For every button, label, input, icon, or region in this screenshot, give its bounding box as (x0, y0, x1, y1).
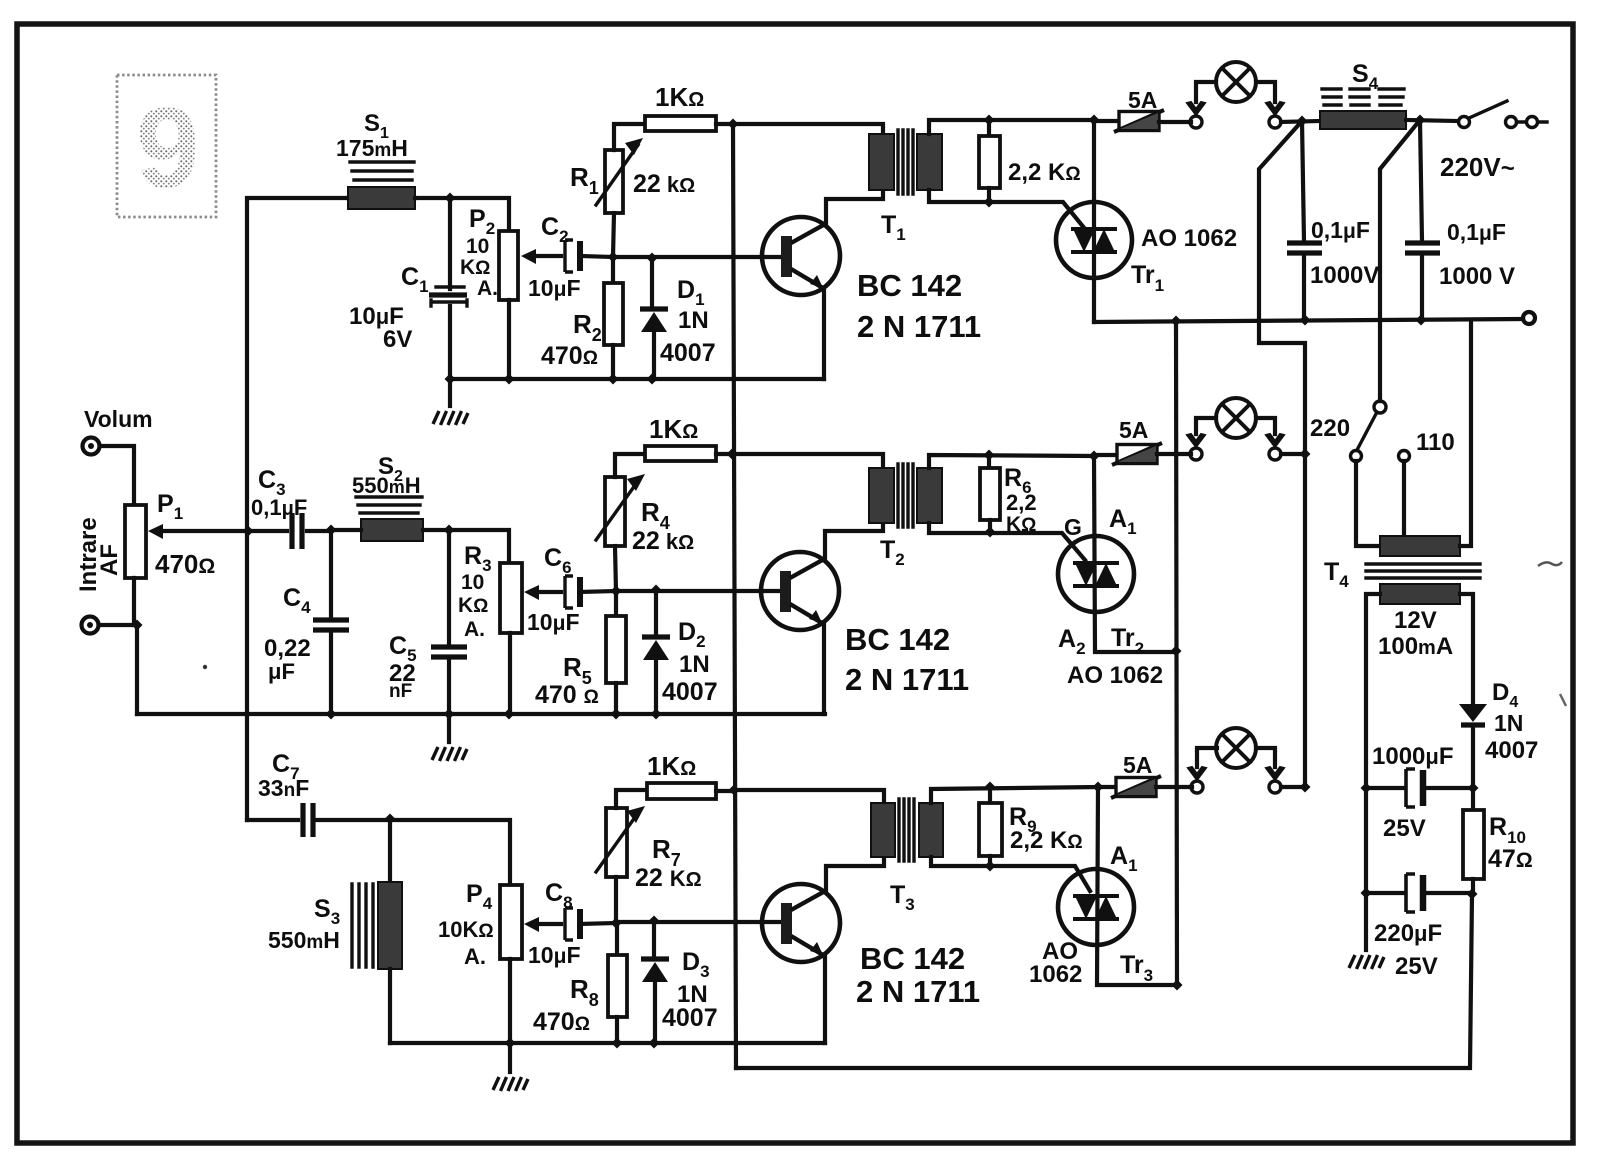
node cap2 rail (1416, 315, 1427, 326)
wire T1 sec top (929, 120, 1094, 134)
svg-text:0,1μF: 0,1μF (1447, 219, 1506, 245)
svg-text:470Ω: 470Ω (533, 1008, 590, 1036)
node S4 left (1297, 116, 1308, 127)
plug socket L2 left (1187, 434, 1205, 460)
inductor S2 (356, 497, 423, 541)
svg-text:9: 9 (136, 85, 199, 212)
wire channel3 ground rail (390, 1041, 825, 1045)
capacitor C2 (565, 240, 580, 272)
wire (99, 625, 137, 714)
stray mark 2 (1560, 694, 1566, 706)
thyristor Tr1 AO1062 (1056, 202, 1132, 278)
fuse F3 5A (1098, 785, 1116, 789)
svg-text:A1: A1 (1110, 842, 1138, 875)
ground channel3 (508, 1043, 512, 1072)
svg-text:220μF: 220μF (1374, 920, 1442, 947)
wire lamp3 left (1197, 748, 1217, 767)
switch S mains (1459, 117, 1470, 128)
wire T4 sec left (1366, 594, 1380, 950)
svg-text:1N: 1N (678, 307, 709, 334)
wire base (613, 255, 782, 259)
wire T2 sec bottom / gate (929, 523, 1085, 560)
svg-text:A1: A1 (1109, 505, 1137, 538)
svg-text:P4: P4 (466, 880, 493, 913)
capacitor 0.1uF no.1 (1302, 121, 1304, 241)
svg-text:R10: R10 (1489, 813, 1526, 847)
svg-text:470Ω: 470Ω (541, 342, 598, 370)
svg-text:10μF: 10μF (527, 609, 580, 635)
svg-text:nF: nF (389, 681, 412, 702)
svg-text:22 kΩ: 22 kΩ (632, 527, 694, 555)
resistor R10 (1471, 788, 1475, 810)
wire lamp2 left (1196, 418, 1216, 434)
svg-text:2,2: 2,2 (1006, 490, 1037, 515)
transformer T4 (1366, 536, 1480, 604)
svg-text:P2: P2 (469, 205, 495, 238)
svg-text:R1: R1 (570, 162, 599, 198)
wire S4 right (1406, 120, 1458, 121)
lamp L3 (1216, 728, 1256, 768)
capacitor C3 (292, 513, 302, 549)
wire emitter rail ch1 (450, 377, 824, 381)
node R9 bottom (985, 861, 996, 872)
node bus wiper (243, 526, 254, 537)
svg-text:P1: P1 (157, 490, 183, 523)
variable resistor R7 (606, 808, 627, 877)
svg-text:Tr1: Tr1 (1131, 261, 1164, 295)
wire T3 sec bottom / gate (931, 857, 1090, 891)
stray mark 1 (1538, 562, 1562, 566)
selector switch 220/110 (1374, 401, 1386, 413)
thyristor Tr2 AO1062 (1058, 536, 1134, 612)
capacitor C8 (565, 908, 580, 940)
node cap1 rail (1300, 315, 1311, 326)
svg-text:A.: A. (464, 944, 486, 969)
svg-text:2 N 1711: 2 N 1711 (845, 662, 969, 697)
wire lamp1 right (1256, 82, 1275, 102)
node C7-S3 (385, 814, 396, 825)
resistor 1K ch1 (645, 116, 716, 131)
wire thyristor vertical (1092, 120, 1096, 322)
plug socket L2 right (1266, 434, 1284, 460)
wire 1K to bus (716, 122, 733, 126)
node 2.2k top (984, 115, 995, 126)
node R8 rail (612, 1038, 623, 1049)
wire T2 sec top (929, 455, 1094, 468)
node cap 1000 left (1361, 783, 1372, 794)
svg-text:550mH: 550mH (268, 927, 340, 953)
svg-text:10: 10 (466, 235, 489, 258)
node thyristor top (1089, 115, 1100, 126)
svg-text:22 kΩ: 22 kΩ (633, 170, 695, 198)
wire collector Q3 (826, 857, 884, 890)
wire to P2 (415, 198, 509, 231)
wire T4 sec right (1460, 594, 1473, 704)
svg-text:100mA: 100mA (1378, 633, 1453, 660)
node feed ch3 (1300, 782, 1311, 793)
wire P2 bottom (507, 300, 511, 379)
node R6 top (984, 450, 995, 461)
wire base ch3 (616, 920, 782, 924)
node D3 top (649, 916, 660, 927)
svg-text:47Ω: 47Ω (1488, 845, 1533, 873)
svg-text:T1: T1 (881, 211, 906, 244)
node D3 rail (649, 1038, 660, 1049)
node bus ch2 (727, 449, 738, 460)
wire supply rail to T1 (733, 124, 883, 134)
capacitor C5 (447, 530, 451, 647)
svg-text:1N: 1N (1494, 710, 1523, 736)
wire emitter Q3 (823, 956, 827, 1043)
stray dot (203, 665, 207, 669)
wire wiper to bus (163, 529, 248, 533)
svg-text:4007: 4007 (1485, 737, 1538, 764)
svg-text:1062: 1062 (1029, 961, 1082, 988)
svg-text:T2: T2 (880, 536, 905, 569)
wire wiper to C6 (539, 590, 561, 594)
node C1 rail (445, 374, 456, 385)
svg-text:12V: 12V (1394, 607, 1437, 634)
wire collector Q1 (826, 190, 883, 223)
svg-text:1KΩ: 1KΩ (655, 82, 704, 112)
stamp logo "9" (117, 75, 216, 217)
svg-text:AF: AF (96, 544, 123, 576)
diode D2 (654, 590, 658, 636)
diode D4 (1459, 704, 1487, 722)
ground channel1 (448, 379, 452, 406)
resistor R8 (615, 923, 619, 955)
svg-text:G: G (1064, 514, 1082, 540)
svg-text:R8: R8 (570, 974, 599, 1010)
svg-text:10μF: 10μF (528, 942, 581, 968)
svg-text:1KΩ: 1KΩ (647, 751, 696, 781)
diode D3 (652, 921, 656, 958)
ground psu (1349, 955, 1384, 969)
node S1 out (445, 193, 456, 204)
transformer T1 (869, 130, 942, 194)
wire lamp1 left (1196, 82, 1216, 102)
wire supply rail to T3 (734, 790, 884, 803)
svg-text:550mH: 550mH (352, 473, 421, 498)
svg-text:R2: R2 (573, 309, 602, 345)
svg-text:33nF: 33nF (258, 775, 309, 801)
svg-text:470Ω: 470Ω (155, 549, 215, 579)
inductor S3 (352, 819, 402, 1043)
transformer T3 (871, 799, 943, 861)
ground channel2 (432, 747, 467, 761)
wire thyristor vertical ch3 (1097, 787, 1177, 985)
node D2 top (651, 585, 662, 596)
node R9 top (985, 782, 996, 793)
svg-text:1KΩ: 1KΩ (649, 414, 698, 444)
wire psu output down (736, 894, 1472, 1068)
node bus ch1 (728, 119, 739, 130)
resistor 1K ch3 (647, 783, 716, 799)
fuse F2 5A (1094, 453, 1117, 457)
resistor R9 (988, 787, 992, 803)
svg-text:175mH: 175mH (336, 135, 408, 161)
wire thyristor vertical ch2 (1094, 456, 1176, 652)
wire ground rail channel2 (137, 712, 825, 716)
svg-text:5A: 5A (1128, 87, 1157, 113)
node C3-S2 (326, 525, 337, 536)
svg-text:C4: C4 (283, 584, 311, 617)
capacitor C1 (448, 198, 452, 289)
resistor 2.2k ch1 (987, 120, 991, 136)
svg-text:A.: A. (477, 277, 498, 300)
wire emitter Q2 (822, 624, 826, 714)
svg-text:2 N 1711: 2 N 1711 (857, 309, 981, 344)
variable resistor R4 (605, 477, 625, 546)
plug socket L1 left (1187, 102, 1205, 128)
resistor R5 (614, 591, 618, 616)
svg-text:Volum: Volum (84, 406, 153, 432)
resistor 1K ch2 (645, 446, 716, 461)
svg-text:1000V: 1000V (1310, 262, 1379, 289)
node cap 220 left (1361, 888, 1372, 899)
svg-text:C1: C1 (401, 263, 429, 296)
svg-text:KΩ: KΩ (458, 594, 488, 617)
svg-text:D2: D2 (678, 618, 706, 651)
svg-text:25V: 25V (1383, 815, 1426, 842)
svg-text:220: 220 (1310, 415, 1350, 442)
svg-text:220V~: 220V~ (1440, 152, 1515, 182)
input terminal Volum (83, 438, 100, 455)
variable resistor R1 (605, 150, 623, 213)
svg-text:10μF: 10μF (528, 275, 581, 301)
svg-text:4007: 4007 (662, 678, 718, 706)
node feed ch2 (1300, 449, 1311, 460)
capacitor 220uF (1366, 891, 1404, 895)
svg-text:A.: A. (464, 618, 485, 641)
svg-text:D3: D3 (682, 948, 710, 981)
input terminal 2 (82, 617, 99, 634)
node D2 rail (651, 709, 662, 720)
wire to S4 node (1281, 121, 1320, 122)
wire 220 tap (1356, 461, 1380, 546)
svg-text:5A: 5A (1123, 752, 1152, 778)
transistor Q2 BC142 (761, 552, 839, 630)
node bus ch3 (729, 785, 740, 796)
svg-text:10: 10 (461, 571, 484, 594)
svg-text:0,22: 0,22 (264, 635, 311, 662)
diode D1 (650, 258, 654, 308)
node D4 cap junction (1468, 783, 1479, 794)
wire lamp2 right (1256, 418, 1275, 434)
svg-text:2,2 KΩ: 2,2 KΩ (1010, 827, 1083, 854)
plug socket L1 right (1266, 102, 1284, 128)
svg-text:BC 142: BC 142 (857, 268, 962, 303)
potentiometer R3 (449, 530, 509, 563)
wire supply rail to T2 (732, 454, 883, 468)
svg-text:C6: C6 (544, 544, 572, 577)
svg-text:2,2 KΩ: 2,2 KΩ (1008, 159, 1081, 186)
svg-text:6V: 6V (383, 326, 412, 353)
node R10 cap junction (1467, 889, 1478, 900)
wire neutral rail (1094, 319, 1523, 322)
wire base ch2 (616, 589, 782, 593)
svg-text:0,1μF: 0,1μF (1311, 217, 1370, 243)
svg-text:Tr3: Tr3 (1120, 951, 1153, 985)
wire P1 bottom (132, 578, 136, 625)
svg-text:10KΩ: 10KΩ (438, 917, 494, 942)
wire wiper to C2 (536, 254, 561, 258)
svg-text:0,1μF: 0,1μF (251, 495, 307, 520)
transistor Q3 BC142 (762, 884, 840, 962)
wire to feed node ch3 (1281, 785, 1305, 789)
capacitor C6 (565, 576, 580, 608)
wire T3 sec top (931, 787, 1098, 803)
potentiometer P2 (499, 231, 518, 300)
wire switch feed line (1380, 120, 1420, 401)
node S2 right (444, 525, 455, 536)
wire collector Q2 (825, 523, 883, 558)
terminal neutral (1523, 312, 1535, 324)
potentiometer P1 (125, 505, 146, 578)
svg-text:T4: T4 (1324, 558, 1349, 591)
node P2 rail (504, 374, 515, 385)
node R2 rail (608, 374, 619, 385)
svg-text:KΩ: KΩ (460, 256, 490, 279)
wire lamp3 right (1256, 748, 1275, 767)
svg-text:1N: 1N (679, 651, 710, 678)
svg-text:C2: C2 (541, 213, 569, 246)
node base left ch2 (611, 586, 622, 597)
wire thyristor return bus (1176, 321, 1177, 985)
capacitor 0.1uF no.2 (1420, 120, 1422, 241)
lamp L1 (1216, 62, 1256, 102)
node R3 rail (504, 709, 515, 720)
node base left (608, 252, 619, 263)
svg-text:BC 142: BC 142 (845, 622, 950, 657)
transistor Q1 BC142 (762, 217, 840, 295)
wire 1K to bus ch3 (716, 789, 734, 793)
node C4 rail (326, 709, 337, 720)
svg-text:4007: 4007 (662, 1004, 718, 1032)
capacitor C7 (247, 818, 298, 822)
node D1 top (647, 253, 658, 264)
node P4 rail (505, 1038, 516, 1049)
node bus right top (1171, 316, 1182, 327)
wire bus top to S1 (348, 196, 415, 200)
svg-text:S3: S3 (314, 895, 340, 928)
svg-text:AO 1062: AO 1062 (1067, 662, 1163, 689)
plug socket L3 right (1266, 767, 1284, 793)
svg-text:2 N 1711: 2 N 1711 (856, 974, 980, 1009)
node junction (132, 620, 143, 631)
wire T4 primary right to neutral (1460, 320, 1471, 546)
svg-text:D4: D4 (1492, 679, 1518, 711)
inductor S1 (348, 162, 415, 209)
node S4 right (1415, 115, 1426, 126)
thyristor Tr3 AO1062 (1058, 869, 1134, 945)
node D1 rail (647, 374, 658, 385)
svg-text:110: 110 (1416, 429, 1455, 456)
capacitor C4 (329, 530, 333, 616)
svg-text:1000μF: 1000μF (1372, 743, 1454, 770)
svg-text:1000 V: 1000 V (1439, 263, 1515, 290)
lamp L2 (1216, 398, 1256, 438)
transformer T2 (869, 464, 942, 527)
svg-text:μF: μF (268, 659, 295, 684)
wire to P4 (390, 820, 510, 885)
wire (100, 446, 134, 505)
svg-text:25V: 25V (1395, 953, 1438, 980)
wire lamp feed line (1259, 121, 1305, 787)
node bus right ch3 (1172, 980, 1183, 991)
wire wiper to C8 (539, 922, 561, 926)
wire S2 (331, 528, 449, 532)
node 2.2k bottom (984, 197, 995, 208)
node base left ch3 (611, 918, 622, 929)
potentiometer P4 (500, 885, 522, 959)
svg-text:AO 1062: AO 1062 (1141, 225, 1237, 252)
svg-text:C8: C8 (545, 879, 573, 912)
capacitor 1000uF (1366, 786, 1404, 790)
svg-text:5A: 5A (1119, 417, 1148, 443)
wire emitter Q1 (822, 289, 826, 379)
svg-text:4007: 4007 (660, 339, 716, 367)
node thyristor top ch3 (1093, 782, 1104, 793)
wire 110 tap (1402, 461, 1406, 536)
svg-text:A2: A2 (1058, 625, 1086, 658)
inductor S4 (1320, 89, 1406, 129)
wire supply bus (733, 124, 736, 1068)
resistor R2 (611, 257, 615, 283)
wire to feed node ch2 (1281, 452, 1305, 456)
svg-text:22 KΩ: 22 KΩ (635, 864, 702, 892)
svg-text:BC 142: BC 142 (860, 941, 965, 976)
node bus right ch2 (1171, 646, 1182, 657)
svg-text:D1: D1 (677, 276, 705, 309)
node R6 bottom (985, 527, 996, 538)
wire 1K to bus ch2 (716, 452, 731, 456)
resistor R6 (987, 455, 991, 468)
fuse F1 5A (1094, 119, 1119, 123)
plug socket L3 left (1188, 767, 1206, 793)
node thyristor top ch2 (1089, 451, 1100, 462)
node C5 rail (444, 709, 455, 720)
wire left bus vertical (247, 198, 348, 820)
wire T1 sec bottom / gate (929, 190, 1085, 229)
svg-text:T3: T3 (890, 881, 915, 914)
node R5 rail (611, 709, 622, 720)
